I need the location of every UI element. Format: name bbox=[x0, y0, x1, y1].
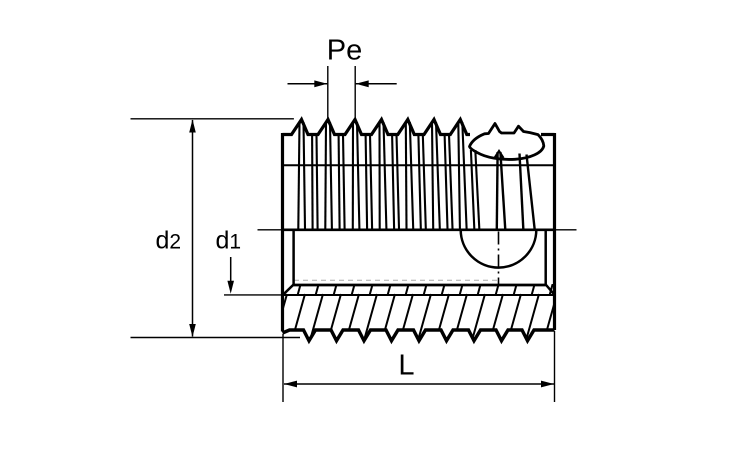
svg-text:d1: d1 bbox=[216, 227, 242, 255]
d1 arrow down bbox=[227, 281, 234, 294]
bore bottom line bbox=[294, 284, 546, 287]
body right edge bbox=[553, 133, 556, 330]
bore top line across body bbox=[282, 229, 556, 232]
d2 arrow up bbox=[189, 120, 196, 133]
L dimension line bbox=[284, 383, 554, 385]
section hatching of threaded wall bbox=[273, 284, 575, 345]
external thread flank lines bbox=[298, 122, 479, 229]
d2 bottom extension line bbox=[131, 337, 301, 339]
cutting hole outline bbox=[470, 124, 544, 160]
thread flank lines seen through cutting hole bbox=[497, 152, 535, 229]
Pe extension line left bbox=[327, 66, 329, 120]
cross-hole centerline (dash-dot) bbox=[498, 232, 500, 287]
thread root cylinder line bbox=[283, 164, 555, 166]
L arrow right bbox=[541, 381, 554, 388]
bore top line right extension bbox=[556, 229, 577, 231]
Pe dimension line right bbox=[356, 83, 397, 85]
svg-text:L: L bbox=[398, 350, 414, 382]
d2 top extension line bbox=[131, 118, 294, 120]
svg-text:Pe: Pe bbox=[327, 35, 362, 67]
cross-hole semicircle bbox=[461, 230, 537, 268]
Pe extension line right bbox=[354, 66, 356, 120]
Pe arrow right bbox=[356, 80, 369, 87]
body top edge with external thread crest zigzag bbox=[283, 120, 471, 135]
d1 bottom reference line bbox=[224, 294, 283, 296]
internal thread crest line (thin) bbox=[294, 279, 498, 281]
right chamfer bevel bbox=[546, 285, 555, 295]
d1 arrow line bbox=[230, 257, 232, 290]
L extension line left bbox=[282, 334, 284, 402]
d2 dimension line bbox=[192, 120, 194, 337]
body bottom edge with external thread zigzag bbox=[283, 330, 555, 341]
svg-text:d2: d2 bbox=[156, 227, 182, 255]
body left edge bbox=[281, 133, 284, 332]
L extension line right bbox=[554, 331, 556, 402]
small thread crest inside cutting hole bbox=[495, 151, 504, 158]
Pe arrow left bbox=[314, 80, 327, 87]
Pe dimension line left bbox=[288, 83, 328, 85]
internal thread root line bbox=[283, 294, 555, 296]
bore top line left extension (d1 reference) bbox=[258, 229, 283, 231]
bore left edge bbox=[292, 231, 295, 286]
body top edge right of cutting hole bbox=[541, 133, 555, 136]
left chamfer bevel bbox=[283, 285, 294, 295]
d2 arrow down bbox=[189, 324, 196, 337]
bore right edge bbox=[544, 231, 547, 286]
L arrow left bbox=[284, 381, 297, 388]
